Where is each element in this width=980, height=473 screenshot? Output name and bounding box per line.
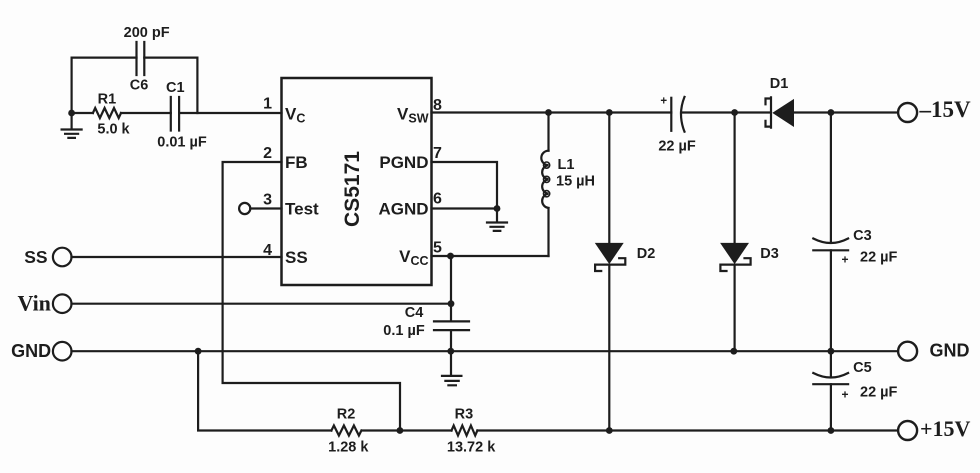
svg-text:Test: Test <box>285 200 319 219</box>
svg-text:+: + <box>841 388 848 402</box>
svg-text:C6: C6 <box>130 78 149 94</box>
svg-text:L1: L1 <box>558 157 575 173</box>
svg-text:PGND: PGND <box>379 153 428 172</box>
svg-text:R2: R2 <box>337 407 356 423</box>
svg-text:AGND: AGND <box>378 200 428 219</box>
svg-text:GND: GND <box>930 341 970 361</box>
svg-text:22 µF: 22 µF <box>658 138 696 154</box>
svg-text:6: 6 <box>433 190 442 207</box>
svg-text:FB: FB <box>285 153 308 172</box>
svg-text:C4: C4 <box>405 305 424 321</box>
svg-text:GND: GND <box>11 341 51 361</box>
svg-text:13.72 k: 13.72 k <box>447 440 496 456</box>
svg-text:R1: R1 <box>98 92 117 108</box>
svg-text:15 µH: 15 µH <box>556 174 595 190</box>
svg-text:8: 8 <box>433 97 442 114</box>
svg-text:22 µF: 22 µF <box>860 385 898 401</box>
svg-text:C5: C5 <box>853 360 872 376</box>
svg-text:5: 5 <box>433 239 442 256</box>
svg-text:SS: SS <box>24 247 47 267</box>
svg-text:R3: R3 <box>455 407 474 423</box>
svg-text:0.01 µF: 0.01 µF <box>157 135 207 151</box>
svg-text:SS: SS <box>285 248 308 267</box>
svg-text:+: + <box>660 96 667 108</box>
svg-text:D1: D1 <box>770 76 789 92</box>
svg-text:–15V: –15V <box>919 97 972 122</box>
svg-text:1: 1 <box>263 96 272 113</box>
svg-text:D2: D2 <box>637 246 656 262</box>
svg-text:+: + <box>841 253 848 267</box>
svg-text:Vin: Vin <box>18 291 51 316</box>
svg-text:0.1 µF: 0.1 µF <box>383 323 425 339</box>
svg-text:200 pF: 200 pF <box>124 25 170 41</box>
svg-text:3: 3 <box>263 192 272 209</box>
svg-text:22 µF: 22 µF <box>860 250 898 266</box>
svg-text:4: 4 <box>263 242 272 259</box>
svg-text:2: 2 <box>263 145 272 162</box>
svg-text:5.0 k: 5.0 k <box>97 121 130 137</box>
svg-text:D3: D3 <box>760 246 779 262</box>
svg-text:1.28 k: 1.28 k <box>328 440 369 456</box>
svg-text:CS5171: CS5171 <box>341 151 364 227</box>
svg-text:C3: C3 <box>853 228 872 244</box>
svg-text:C1: C1 <box>166 80 185 96</box>
svg-text:7: 7 <box>433 145 442 162</box>
svg-text:+15V: +15V <box>920 416 971 441</box>
